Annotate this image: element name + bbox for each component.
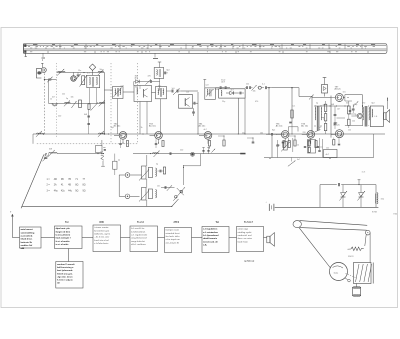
diode D1 (135, 80, 139, 84)
det vert x292 (291, 88, 293, 122)
dial scale station text row 2 (30, 47, 32, 50)
tuning drum (330, 263, 348, 281)
pp mid components (348, 106, 351, 114)
power choke L10 (377, 193, 378, 204)
svg-text:n22: n22 (206, 85, 209, 87)
det transformer T5 (204, 80, 206, 88)
rail caps C18 (153, 153, 159, 154)
svg-text:i strøer munta: i strøer munta (94, 226, 109, 229)
det box T6 (219, 89, 245, 98)
bias res R9 (294, 140, 296, 146)
svg-text:tdB: tdB (21, 247, 25, 250)
svg-text:endelse 3ef: endelse 3ef (21, 245, 33, 247)
coil L7 (65, 101, 71, 104)
TS5 emitter cap (282, 141, 285, 143)
svg-text:10k: 10k (253, 91, 256, 93)
cluster caps C16 (159, 170, 161, 173)
pa wire links (348, 113, 356, 115)
mid row wire (49, 102, 105, 104)
TS1 base cap (77, 74, 80, 76)
antenna A1 stem tick (41, 63, 43, 67)
below TS6 res (315, 141, 317, 148)
dial cord tube (300, 221, 368, 231)
svg-text:6k8: 6k8 (84, 114, 87, 116)
output transformer T9 winding left (362, 107, 365, 120)
pa cap C24 (349, 110, 351, 112)
power diode D5 (360, 185, 362, 193)
IF transformer T3 (156, 87, 167, 99)
flow box 5 (165, 228, 192, 253)
svg-text:8p2: 8p2 (272, 130, 275, 132)
dial scale lower ticks (47, 51, 49, 54)
svg-text:AB: AB (54, 178, 58, 181)
dial cord right drop (365, 235, 366, 246)
svg-text:1n5: 1n5 (172, 88, 175, 90)
power right vert (375, 185, 377, 208)
dial cord pulley (366, 230, 371, 235)
svg-text:h.f.trin i salg av: h.f.trin i salg av (57, 279, 74, 282)
TS4 emitter res (208, 141, 210, 147)
osc coil L8 (99, 101, 105, 104)
tone rail (264, 157, 374, 159)
bias stub (324, 93, 326, 97)
svg-text:12k: 12k (352, 121, 355, 123)
svg-text:4n7: 4n7 (204, 129, 207, 131)
svg-text:n47: n47 (337, 109, 340, 111)
svg-text:E70B: E70B (372, 212, 378, 214)
feedback loop box (96, 146, 103, 153)
svg-text:omg.50-forst.bf: omg.50-forst.bf (131, 237, 147, 240)
det out caps C13 (245, 86, 247, 89)
T8 top wire (315, 105, 348, 107)
tone box (324, 150, 338, 158)
svg-text:lavinjer mont: lavinjer mont (166, 229, 180, 232)
bus coil L10 (99, 133, 105, 134)
TS6 lead bottom (310, 138, 312, 144)
svg-text:AC 10x: AC 10x (276, 125, 283, 128)
svg-text:tilsait d'act.: tilsait d'act. (21, 238, 33, 241)
pa emitter res R10 (333, 140, 335, 146)
flow box 3 (93, 225, 121, 252)
svg-text:ttil: ttil (57, 282, 60, 285)
wire C5 vert (133, 82, 135, 86)
push-pull res R6 (324, 123, 326, 130)
dial scale left end cap (23, 44, 25, 54)
vertical x198 (197, 92, 199, 134)
mid rail to pots (118, 175, 120, 196)
svg-text:E708 10: E708 10 (245, 259, 255, 263)
svg-text:1n5: 1n5 (343, 92, 346, 94)
TS2 emitter cap (119, 143, 122, 145)
bottom rail left diagonal (21, 155, 44, 209)
svg-text:10k: 10k (71, 97, 74, 99)
svg-text:220: 220 (58, 116, 61, 118)
svg-text:nærkant? varmdt: nærkant? varmdt (57, 263, 75, 266)
mid rail y153 right (133, 153, 246, 155)
svg-text:-lign alm. besm: -lign alm. besm (57, 276, 73, 278)
bus coil L9 (37, 133, 43, 134)
IF transformer T1 (113, 87, 124, 99)
node dot antenna (44, 79, 45, 80)
svg-text:15n: 15n (157, 186, 160, 188)
flow box 4 (130, 226, 158, 252)
TS7 out (343, 97, 345, 99)
vert x103 to bus (101, 146, 103, 154)
svg-text:forstærker gen: forstærker gen (94, 229, 110, 232)
dial scale right end cap (386, 44, 388, 54)
svg-text:tr.st. af mtrls: tr.st. af mtrls (56, 243, 70, 246)
svg-text:fangen af dem: fangen af dem (56, 231, 71, 233)
battery B1 (268, 204, 270, 211)
wire IF3 top (181, 90, 198, 92)
svg-text:15n: 15n (323, 105, 326, 107)
svg-text:4n7: 4n7 (231, 90, 234, 92)
svg-text:hørt lydområde: hørt lydområde (57, 269, 73, 272)
TS6 collector (315, 130, 321, 133)
mixer arrow2 (71, 101, 76, 108)
rail circle (191, 153, 194, 156)
output sec winding (368, 107, 371, 120)
svg-text:AC 10x: AC 10x (199, 125, 206, 128)
pot P2 (142, 188, 147, 201)
dial scale line 3 (24, 48, 387, 50)
flow box 8 (56, 262, 83, 289)
svg-text:220: 220 (180, 150, 183, 152)
flow box 6 (202, 227, 229, 253)
svg-text:ansv.h.satt. de: ansv.h.satt. de (203, 240, 219, 243)
pot link (146, 155, 148, 166)
svg-text:s.f.d'alm krets: s.f.d'alm krets (94, 242, 109, 245)
bias res R8 (223, 140, 225, 146)
svg-text:betteste 3b: betteste 3b (21, 241, 33, 244)
vert x88 down (88, 109, 90, 134)
svg-text:15.8: 15.8 (362, 171, 366, 173)
svg-text:12k: 12k (186, 92, 189, 94)
svg-text:5p: 5p (156, 164, 158, 166)
bus right end (384, 127, 386, 135)
svg-text:retarded forst: retarded forst (166, 232, 180, 235)
AM coil L9 (49, 153, 57, 154)
cluster caps C17 (161, 187, 175, 189)
power diode D4 (342, 185, 344, 193)
svg-text:al.h.f. mellems: al.h.f. mellems (131, 244, 147, 246)
power top rail (320, 184, 337, 186)
TS3 lead left (150, 134, 155, 136)
osc coil L5 (98, 70, 104, 73)
wire padder top (45, 154, 47, 156)
svg-text:samemdeling: samemdeling (21, 232, 35, 234)
dial scale section tick marks (59, 44, 61, 49)
svg-text:220: 220 (303, 132, 306, 134)
svg-text:470: 470 (148, 76, 151, 78)
RF coil L1 (58, 70, 66, 73)
svg-text:1k: 1k (50, 99, 52, 101)
svg-text:kode fram: kode fram (238, 241, 248, 243)
TS6 lead left (302, 133, 307, 135)
flow box 2 (55, 226, 83, 249)
junction dots (59, 72, 60, 73)
dial cord tube end (293, 221, 301, 228)
antenna A1 bracket (36, 69, 41, 78)
mid row left riser (48, 80, 50, 104)
svg-text:3k3: 3k3 (44, 155, 47, 157)
svg-text:untat utgå: untat utgå (238, 228, 249, 231)
det hang res R4 (291, 110, 293, 118)
svg-text:nindlag vydst: nindlag vydst (238, 231, 252, 234)
det vert x269 (268, 88, 270, 134)
driver sec tap (321, 117, 324, 119)
dotted bias rail (37, 143, 138, 145)
transistor TS6 (307, 131, 315, 139)
flow input arrow (11, 217, 13, 238)
bottom rail (22, 205, 172, 207)
antenna A1 loop (41, 68, 46, 73)
output transistor TS8 (335, 130, 343, 138)
dial scale line 4 (24, 50, 387, 52)
avc stub (183, 165, 184, 166)
gang capacitor block (354, 263, 372, 284)
svg-text:3k3: 3k3 (346, 103, 349, 105)
svg-text:AC12x: AC12x (335, 88, 341, 91)
svg-text:2TF2: 2TF2 (174, 221, 180, 224)
wire to TS7 (312, 97, 331, 99)
main bus wire right (312, 133, 385, 135)
TS3 lead bottom (158, 139, 160, 144)
coil T7 with core (101, 155, 104, 160)
svg-text:megr.forb.det: megr.forb.det (131, 240, 145, 243)
TS9 wires (361, 119, 363, 126)
svg-text:AC 10x: AC 10x (114, 125, 121, 128)
output transformer T9 core (364, 106, 366, 127)
svg-text:Tol: Tol (216, 221, 220, 224)
transistor TS3 (155, 132, 163, 140)
TS5 coupling (289, 121, 292, 123)
bias box (322, 85, 328, 94)
top box stem (159, 62, 161, 68)
svg-text:6k8: 6k8 (331, 104, 334, 106)
small transistor TS9 (357, 113, 362, 118)
det vert x245 (244, 98, 246, 134)
driver transformer T8 windings (314, 107, 317, 120)
dial scale station text row (28, 45, 30, 48)
svg-text:h.f.-oscill. fm: h.f.-oscill. fm (131, 228, 144, 230)
det box cap C12 (239, 92, 241, 95)
svg-text:12k: 12k (348, 130, 351, 132)
bottom rail right (275, 206, 379, 208)
svg-text:8p2: 8p2 (167, 70, 170, 72)
bias cap C23 (252, 141, 255, 143)
wire diamond stem (92, 70, 94, 75)
det vert x238 (237, 98, 239, 134)
svg-text:a-omstænd.: a-omstænd. (21, 235, 34, 238)
svg-text:dipol antr. pla: dipol antr. pla (56, 227, 71, 230)
bias stem (324, 78, 326, 85)
svg-text:1n5: 1n5 (318, 127, 321, 129)
svg-text:3B: 3B (61, 179, 64, 181)
speaker housing box (370, 106, 383, 127)
svg-text:hack antispil. f: hack antispil. f (56, 237, 71, 240)
gang vert link (356, 284, 358, 288)
svg-text:Ts 2-3: Ts 2-3 (137, 221, 144, 224)
svg-text:...hs fr.niv. omr: ...hs fr.niv. omr (94, 237, 109, 239)
af in vert (311, 97, 313, 135)
svg-text:finkelt ann-gen.: finkelt ann-gen. (57, 272, 73, 275)
stem box right (95, 88, 97, 104)
flow connector line (12, 237, 19, 239)
driver transformer T8 core (316, 106, 318, 131)
svg-text:n47: n47 (121, 86, 124, 88)
resistor R1 (82, 76, 85, 85)
svg-text:indkreds- og fm: indkreds- og fm (94, 234, 110, 236)
transistor TS4 (204, 132, 212, 140)
transistor TS2 (119, 132, 127, 140)
svg-text:2k2: 2k2 (246, 84, 249, 86)
TS5 lead bottom (284, 138, 286, 144)
svg-text:n22: n22 (326, 148, 329, 150)
mid rail y153 (57, 153, 103, 155)
wire T1-T2 (123, 91, 134, 93)
vol cap C20 (276, 144, 279, 146)
driver transistor TS7 (335, 94, 343, 102)
det diode circle D3 (258, 86, 261, 89)
flow box 7 (237, 227, 264, 252)
mixer transistor TS1 (71, 76, 77, 82)
wire J2 (130, 195, 140, 197)
trimmer C1 (48, 78, 51, 80)
svg-text:15n: 15n (78, 70, 81, 72)
svg-text:0,1: 0,1 (293, 106, 296, 108)
svg-text:1k: 1k (141, 127, 143, 129)
scale note mark 1 (42, 58, 46, 59)
AF wire (272, 87, 299, 89)
dial scale line 2 (24, 45, 387, 47)
vertical wire x104 (103, 72, 105, 134)
svg-text:fen lavfr. deln: fen lavfr. deln (166, 236, 180, 238)
hang cap C4 (87, 115, 90, 117)
pp wire mid (337, 117, 346, 119)
dashed screen divider 1 (110, 63, 112, 144)
jack socket J2 (125, 194, 130, 199)
pa bus stub (338, 137, 340, 143)
tone box stub (329, 157, 331, 159)
svg-text:4n7: 4n7 (297, 159, 300, 161)
Y arrow (309, 95, 314, 100)
svg-text:0,1: 0,1 (262, 84, 265, 86)
svg-text:o.f. regulerende: o.f. regulerende (131, 235, 148, 237)
svg-text:7B: 7B (68, 179, 71, 181)
svg-text:b.avl trin af ml: b.avl trin af ml (94, 239, 109, 242)
top bus wire (57, 71, 105, 73)
dotted divider x56 (56, 63, 58, 138)
dashed screen divider 2 (137, 63, 139, 144)
svg-text:15Ω: 15Ω (381, 199, 385, 201)
svg-text:4n7: 4n7 (52, 97, 55, 99)
feedback vert (373, 134, 375, 158)
TS3 emitter cap (155, 143, 158, 145)
resistor R2 (79, 100, 82, 108)
dial scale bold band markings (33, 43, 37, 46)
osc arrow (91, 102, 99, 110)
push-pull res R5 (324, 104, 326, 111)
svg-text:8Ω: 8Ω (83, 185, 86, 187)
svg-text:2A: 2A (54, 184, 57, 187)
rail caps C19 (169, 152, 171, 155)
pointer mark below scale (25, 53, 27, 56)
pot P1 (142, 166, 147, 179)
tuning gang dashed link (44, 74, 46, 135)
svg-text:c-fm trapé om: c-fm trapé om (166, 238, 180, 241)
splitter vert (330, 96, 332, 138)
left rail drop (32, 134, 34, 144)
speaker LS1 (384, 113, 386, 120)
svg-text:10k: 10k (260, 133, 263, 135)
svg-text:dess. av extra: dess. av extra (238, 237, 253, 240)
dial scale top line (24, 43, 386, 45)
svg-text:8Ω: 8Ω (75, 185, 78, 187)
svg-text:n47: n47 (100, 152, 103, 154)
IF3 bottom cap C9 (192, 111, 195, 113)
svg-text:470: 470 (362, 103, 365, 105)
AGC arrow (146, 80, 152, 85)
svg-text:antal nævnt: antal nævnt (21, 228, 33, 231)
svg-text:detall-inmarie: detall-inmarie (203, 237, 218, 240)
RF choke L6 (52, 103, 57, 106)
switch SW1 (175, 196, 178, 199)
svg-text:fr.st. af antsla: fr.st. af antsla (56, 240, 71, 243)
switch vert (183, 166, 185, 185)
dial scale bottom line (24, 52, 386, 54)
svg-text:5p: 5p (316, 103, 318, 105)
transistor TS5 (281, 131, 289, 139)
svg-text:b ams-afstemt: b ams-afstemt (56, 234, 71, 237)
wire J1 (130, 174, 142, 176)
svg-text:SNOR: SNOR (348, 256, 354, 258)
osc box L4 (87, 75, 100, 87)
wire T2-T3 (152, 92, 156, 94)
TS5 lead left (276, 133, 281, 135)
vol wire (271, 136, 273, 158)
flow speaker (267, 236, 270, 243)
TS5 base cap (271, 133, 273, 136)
knob cylinder (353, 288, 361, 296)
power left vert (319, 185, 321, 208)
vol pot P3 (284, 142, 288, 150)
IF3 stage box (179, 95, 193, 109)
oscillator diamond X1 (89, 64, 95, 70)
detector caps C7 (171, 90, 173, 93)
power cap C22 (337, 183, 339, 186)
wire T5 to caps (215, 88, 218, 90)
wire rail to switch (172, 199, 179, 206)
stem box left (88, 88, 90, 104)
neutralizing cap C5 (149, 80, 151, 83)
below TS5 res (283, 141, 285, 148)
det cap C10 (219, 86, 221, 89)
dial cord diagonal (299, 228, 331, 268)
scale note mark 2 (153, 58, 158, 59)
TS6 emitter res (308, 141, 310, 147)
svg-text:Ts 5-6-7: Ts 5-6-7 (244, 221, 254, 224)
drum dashes (346, 274, 356, 278)
box T3 bottom stem (160, 99, 162, 134)
svg-text:ans-innym flt: ans-innym flt (166, 241, 180, 244)
det caps C14 (264, 86, 266, 89)
box T1 bottom stem (117, 99, 119, 135)
padder trimmer C15 (44, 156, 47, 158)
svg-text:undersid. mel: undersid. mel (238, 235, 252, 237)
svg-text:6k8: 6k8 (49, 149, 52, 151)
svg-text:2k2: 2k2 (62, 94, 65, 96)
